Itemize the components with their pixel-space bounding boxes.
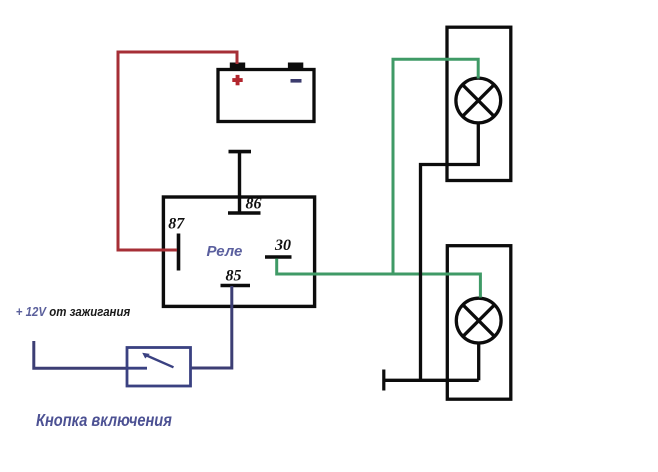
svg-text:85: 85 xyxy=(226,268,242,285)
wire green branch to lamp HL1 xyxy=(393,59,478,274)
battery minus mark xyxy=(291,79,302,83)
switch S1 box xyxy=(127,348,191,387)
battery GB1 body xyxy=(218,70,314,122)
svg-text:Реле: Реле xyxy=(207,243,243,260)
pin 87 terminal bar xyxy=(177,234,181,271)
lamp HL2 bulb circle xyxy=(456,298,501,343)
wire red from battery + to relay pin 87 xyxy=(118,52,237,250)
relay K1 body xyxy=(163,197,314,306)
wire blue from pin 85 to switch xyxy=(191,286,232,368)
switch S1 lever xyxy=(146,355,174,367)
svg-text:86: 86 xyxy=(246,195,262,212)
battery terminal tab + xyxy=(230,63,245,69)
pin 86 inner terminal bar xyxy=(228,211,261,215)
ground rail wire xyxy=(384,379,479,382)
switch S1 lever arrowhead xyxy=(142,353,150,359)
lamp HL2 housing box xyxy=(447,246,511,400)
wire blue from +12v stub to switch xyxy=(34,341,127,368)
wire green from pin 30 to lamp HL2 xyxy=(277,259,481,298)
pin 86 top terminal bar xyxy=(229,150,252,154)
pin 30 terminal bar xyxy=(265,255,292,259)
battery plus mark xyxy=(232,75,242,85)
battery terminal tab - xyxy=(288,63,303,69)
ground terminal bar xyxy=(382,370,385,391)
wire black from lamp HL1 to ground rail xyxy=(421,123,479,380)
wire black from lamp HL2 to ground rail xyxy=(477,343,480,380)
pin 86 stem wire xyxy=(238,152,241,213)
lamp HL1 bulb circle xyxy=(456,78,501,123)
pin 85 terminal bar xyxy=(221,284,251,288)
switch S1 left contact stub xyxy=(127,367,147,370)
svg-text:Кнопка включения: Кнопка включения xyxy=(36,412,172,430)
lamp HL1 cross xyxy=(463,85,495,117)
lamp HL2 cross xyxy=(463,305,495,337)
svg-text:30: 30 xyxy=(274,237,291,254)
svg-text:87: 87 xyxy=(168,216,185,233)
svg-text:+ 12V от зажигания: + 12V от зажигания xyxy=(16,304,130,319)
lamp HL1 housing box xyxy=(447,27,511,180)
